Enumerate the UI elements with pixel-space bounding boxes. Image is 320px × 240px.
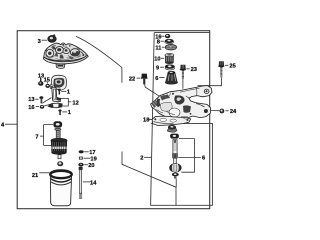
nut 16 lower [40, 103, 54, 109]
bearing cap (top of armature 7) [53, 121, 62, 127]
stay bracket (group 12) [52, 87, 61, 102]
bearing (shaft top) [170, 134, 179, 139]
nut 24 (outside frame) [220, 109, 225, 114]
label 12 bracket [59, 98, 71, 106]
washer 8 [165, 39, 174, 44]
label 1 upper [61, 90, 66, 92]
frame border [17, 31, 210, 209]
label 6 bracket (shaft group) [178, 139, 201, 173]
seat 11 [165, 44, 176, 50]
carburetor-like part (pump cover) [50, 75, 66, 90]
label 2 leader [144, 156, 151, 158]
stub below washer [174, 176, 176, 178]
label 25 [225, 64, 228, 66]
svg-text:6: 6 [155, 76, 158, 82]
washer below rotor [172, 173, 179, 177]
wire leader from bolt 22 to pump nozzle [145, 84, 162, 97]
plate 18 [152, 116, 190, 126]
washer 9 [165, 64, 175, 70]
cap 3 [48, 34, 57, 42]
svg-text:14: 14 [90, 180, 97, 186]
cup 21 (strainer cup) [50, 170, 72, 205]
leader from nut 24 into frame [197, 108, 219, 111]
leader from bolt 25 into frame [198, 78, 222, 86]
svg-text:12: 12 [72, 101, 78, 107]
bolt 1 lower [58, 109, 61, 115]
label 23 [186, 68, 189, 70]
svg-text:2: 2 [140, 156, 143, 162]
svg-text:16: 16 [28, 105, 34, 111]
svg-text:11: 11 [155, 45, 161, 51]
pin 17 [79, 150, 84, 153]
svg-text:17: 17 [89, 150, 95, 156]
svg-text:19: 19 [90, 157, 96, 163]
svg-text:15: 15 [44, 78, 50, 84]
plunger 10 [165, 53, 174, 64]
svg-text:21: 21 [32, 173, 38, 179]
label 1 lower [62, 111, 67, 113]
svg-text:25: 25 [229, 64, 235, 70]
bolt 22 [141, 74, 148, 85]
svg-text:1: 1 [67, 89, 70, 95]
washer 20 [78, 163, 83, 167]
svg-text:24: 24 [230, 109, 237, 115]
screw 13 lower [39, 96, 51, 103]
svg-text:10: 10 [154, 57, 160, 63]
bolt 23 [180, 65, 186, 79]
pump body (casting with arm) [151, 86, 212, 120]
pump rotor [170, 163, 182, 172]
svg-text:6: 6 [202, 156, 205, 162]
wire divider line motor-to-pump [122, 152, 176, 206]
svg-text:9: 9 [156, 65, 159, 71]
label 4 leader [5, 123, 17, 125]
wire leader from bolt 22 to housing [76, 36, 122, 82]
pinion gear (armature) [51, 138, 67, 154]
svg-text:7: 7 [35, 134, 38, 140]
group box 2 (pump assembly box) [151, 33, 213, 206]
nut 15 [45, 84, 50, 88]
label 7 bracket [40, 125, 53, 146]
bushing under plate [167, 125, 177, 132]
svg-text:13: 13 [28, 97, 34, 103]
svg-text:20: 20 [88, 163, 94, 169]
pump shaft [172, 140, 177, 164]
nut 19 [79, 157, 83, 160]
leader bolt 23 to body [182, 79, 184, 89]
tappet 6 (cone) [165, 71, 178, 85]
shaft stub below gear [58, 155, 61, 159]
lever (group 12) [48, 103, 62, 108]
housing (crankcase cover) [43, 43, 88, 68]
svg-text:18: 18 [143, 118, 149, 124]
washer under bearing [55, 128, 61, 130]
screw 13 upper [38, 78, 43, 86]
label 24 [225, 110, 228, 112]
bolt 1 upper [58, 89, 61, 95]
bushing ring [57, 161, 63, 166]
svg-text:3: 3 [38, 39, 41, 45]
nut 16 (column) [165, 34, 170, 38]
bolt 14 (long) [78, 167, 82, 199]
svg-text:1: 1 [68, 110, 71, 116]
bolt 25 (outside frame) [218, 61, 224, 77]
svg-text:23: 23 [191, 67, 197, 73]
armature shaft [56, 130, 60, 139]
wire leader pump shaft down [175, 179, 177, 188]
svg-text:22: 22 [129, 76, 135, 82]
